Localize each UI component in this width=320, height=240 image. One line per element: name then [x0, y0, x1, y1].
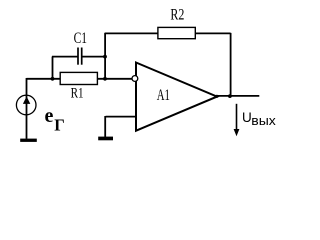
op-amp inverting input bubble [132, 76, 138, 82]
wire: right capacitor plate to feedback riser [82, 56, 106, 58]
resistor R1 body [60, 72, 97, 84]
capacitor C1 plates [78, 48, 82, 65]
label e_G (generator emf) [45, 105, 65, 135]
svg-text:U: U [242, 110, 252, 125]
wire: non-inverting input down to ground [104, 116, 106, 138]
svg-text:A1: A1 [157, 87, 170, 104]
wire: feedback right vertical down to output node [230, 33, 232, 96]
svg-text:Г: Г [54, 116, 65, 135]
wire: non-inverting input horizontal [106, 116, 137, 118]
node: junction C1 branch and feedback riser [103, 55, 107, 59]
node: output feedback junction [228, 94, 232, 98]
node: op-amp output apex junction [215, 95, 218, 98]
svg-text:R1: R1 [71, 86, 84, 102]
source arrow (up) inside circle [23, 96, 30, 104]
wire: main input net from source to inverting input [27, 78, 133, 80]
svg-text:вых: вых [251, 113, 276, 128]
wire: output net from op-amp apex to right [217, 95, 260, 97]
wire: C1 branch horizontal to left capacitor plate [52, 56, 78, 58]
wire: feedback vertical riser x=105 [104, 33, 106, 79]
svg-text:e: e [45, 105, 54, 127]
svg-text:C1: C1 [74, 30, 87, 47]
ground under non-inverting input [98, 137, 113, 141]
resistor R2 body [158, 27, 195, 38]
op-amp A1 triangle [136, 63, 217, 131]
label U vyh (output voltage) [242, 110, 276, 128]
output voltage arrow (down) [234, 104, 240, 136]
generator source circle [16, 95, 36, 115]
wire: R2 right side to output riser corner [195, 32, 231, 34]
node: junction right of R1 [103, 77, 107, 81]
node: junction left of R1 [51, 77, 55, 81]
ground under source [20, 139, 37, 142]
wire: source vertical through circle down to ground [26, 78, 28, 139]
svg-text:R2: R2 [170, 7, 184, 24]
wire: C1 branch left vertical riser [52, 57, 54, 80]
wire: top feedback horizontal to R2 [105, 32, 158, 34]
